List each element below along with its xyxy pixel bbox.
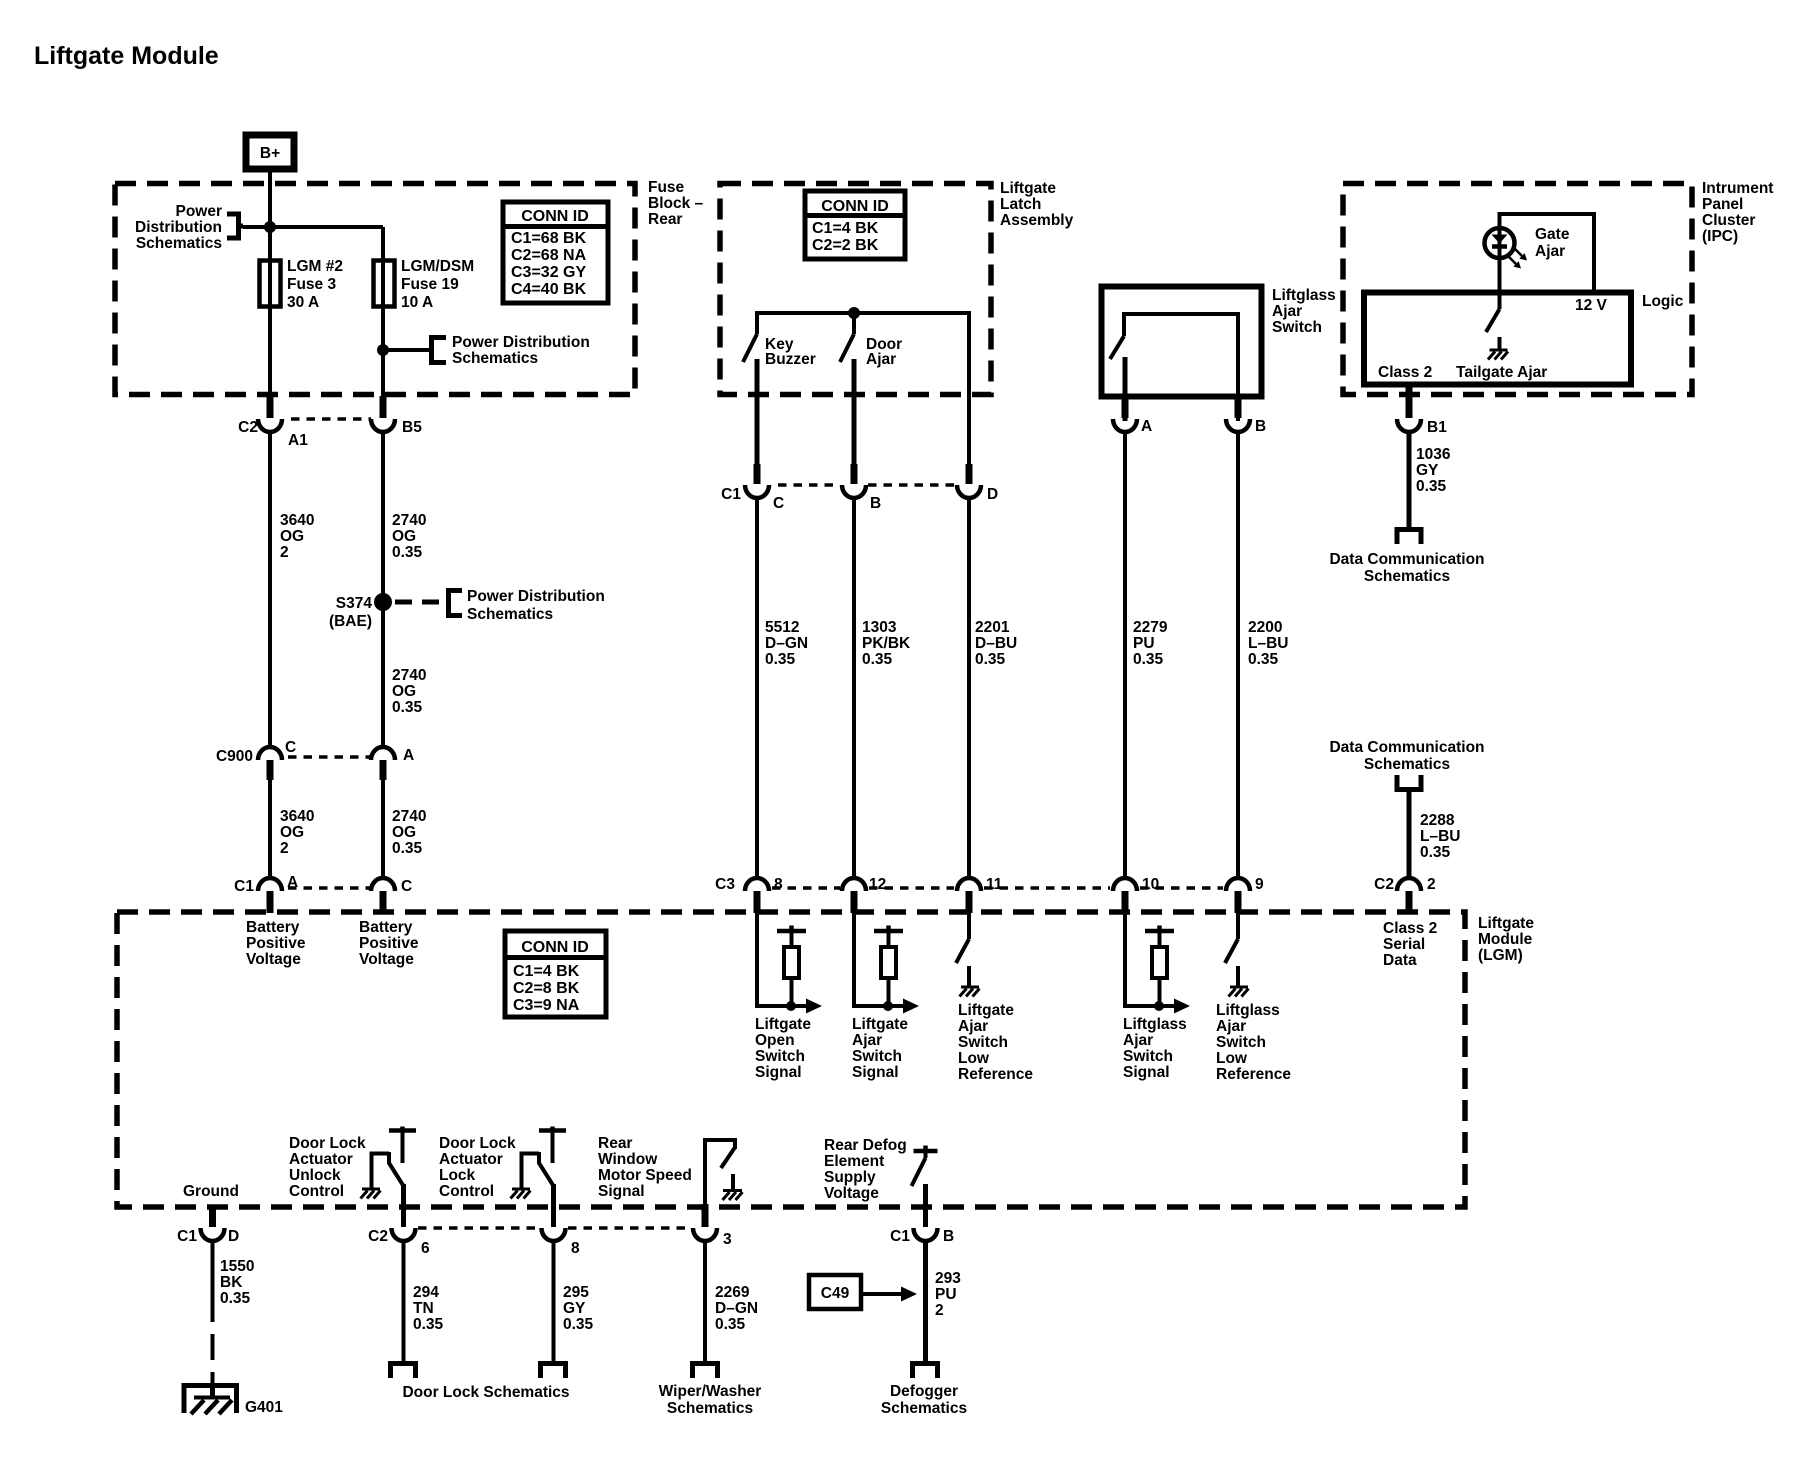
svg-text:(IPC): (IPC) [1702, 228, 1738, 245]
svg-text:Wiper/Washer: Wiper/Washer [659, 1383, 762, 1400]
connector C1 pin C (stub) [754, 464, 761, 484]
rear window motor: lower contact [731, 1174, 735, 1189]
svg-text:D: D [987, 486, 998, 503]
svg-text:(LGM): (LGM) [1478, 947, 1523, 964]
svg-text:C2: C2 [1374, 876, 1394, 893]
connector C2 pin 2 (stub) [1406, 891, 1413, 913]
svg-text:Battery: Battery [359, 919, 413, 936]
svg-text:Gate: Gate [1535, 226, 1570, 243]
svg-text:B+: B+ [260, 145, 280, 162]
conn id table (LGM) [505, 931, 606, 1017]
wire circuit 5512 [755, 497, 759, 880]
conn id table (latch) [805, 191, 905, 259]
connector link C3 row a [772, 886, 840, 890]
fuse block label [648, 179, 704, 228]
connector link C3 row d [1140, 886, 1223, 890]
connector C900 pin A (arc) [371, 747, 395, 760]
svg-text:Liftgate: Liftgate [852, 1016, 908, 1033]
svg-text:Ajar: Ajar [1272, 303, 1302, 320]
svg-text:Distribution: Distribution [135, 219, 222, 236]
ground (door lock lock) [511, 1189, 531, 1199]
svg-text:C2: C2 [238, 419, 258, 436]
svg-text:Reference: Reference [1216, 1066, 1291, 1083]
svg-text:C1=68 BK: C1=68 BK [511, 230, 587, 247]
svg-text:B1: B1 [1427, 419, 1447, 436]
node latch bus / door ajar [848, 307, 860, 319]
switch: rear window motor speed (blade) [721, 1148, 735, 1168]
connector C2 pin 2 (arc) [1397, 878, 1421, 891]
svg-text:2200: 2200 [1248, 619, 1282, 636]
connector C1 pin A (arc) [258, 878, 282, 891]
svg-text:Schematics: Schematics [1364, 568, 1450, 585]
svg-text:Liftglass: Liftglass [1216, 1002, 1280, 1019]
svg-text:Unlock: Unlock [289, 1167, 341, 1184]
svg-text:D–GN: D–GN [765, 635, 808, 652]
connector pin B5 (arc) [371, 419, 395, 432]
arrow liftgate ajar switch signal [903, 999, 919, 1014]
svg-text:GY: GY [563, 1300, 586, 1317]
svg-text:2201: 2201 [975, 619, 1010, 636]
wire liftgate open switch input [757, 912, 812, 1006]
svg-text:Motor Speed: Motor Speed [598, 1167, 692, 1184]
LED light arrows [1508, 248, 1527, 269]
svg-text:Liftgate: Liftgate [755, 1016, 811, 1033]
node liftgate ajar resistor tie [883, 1001, 893, 1011]
label liftglass ajar switch [1272, 287, 1336, 336]
svg-text:C2: C2 [368, 1228, 388, 1245]
connector pin 12 (stub) [851, 891, 858, 913]
svg-text:Signal: Signal [755, 1064, 802, 1081]
connector pin 11 (arc) [957, 878, 981, 891]
wire circuit 2740 upper [381, 431, 385, 749]
switch: liftglass ajar (blade) [1110, 336, 1124, 359]
connector pin C (stub) [380, 891, 387, 913]
svg-text:0.35: 0.35 [1133, 651, 1164, 668]
svg-text:Class 2: Class 2 [1383, 920, 1437, 937]
svg-text:Control: Control [439, 1183, 494, 1200]
connector link bottom row b [568, 1226, 691, 1230]
node: fuse 19 output tap [377, 344, 389, 356]
wire liftglass ajar low ref [1236, 912, 1240, 939]
svg-text:Liftglass: Liftglass [1123, 1016, 1187, 1033]
wire B+ to fuse 1 [268, 172, 272, 400]
svg-text:L–BU: L–BU [1420, 828, 1460, 845]
svg-text:Schematics: Schematics [1364, 756, 1450, 773]
label wire 294 TN 0.35 [413, 1284, 444, 1333]
svg-text:Rear: Rear [648, 211, 682, 228]
connector pin D (stub) [966, 464, 973, 484]
off-page bracket: power distribution schematics (mid) [432, 338, 447, 363]
svg-text:Ground: Ground [183, 1183, 239, 1200]
svg-text:Positive: Positive [359, 935, 419, 952]
connector pin B5 (stub) [380, 396, 387, 418]
connector C1 pin A (stub) [267, 891, 274, 913]
connector link C3 row c [984, 886, 1110, 890]
svg-text:Assembly: Assembly [1000, 212, 1074, 229]
liftglass switch internal wire [1124, 314, 1238, 421]
wire 12V loop [1500, 214, 1595, 292]
svg-text:C1: C1 [177, 1228, 197, 1245]
resistor (liftgate ajar pull-up) [874, 926, 903, 1007]
label class 2 serial data [1383, 920, 1437, 969]
label liftglass ajar switch signal [1123, 1016, 1187, 1081]
svg-text:C3=32 GY: C3=32 GY [511, 264, 586, 281]
svg-text:Panel: Panel [1702, 196, 1743, 213]
connector pin A (stub) [1122, 398, 1129, 418]
label wire 2201 D-BU 0.35 [975, 619, 1017, 668]
battery feed B+ [246, 135, 294, 169]
svg-text:S374: S374 [336, 595, 373, 612]
svg-text:Intrument: Intrument [1702, 180, 1773, 197]
connector link C3 row b [869, 886, 954, 890]
svg-text:Liftgate: Liftgate [958, 1002, 1014, 1019]
svg-text:(BAE): (BAE) [329, 613, 372, 630]
svg-text:0.35: 0.35 [1248, 651, 1279, 668]
svg-text:PU: PU [1133, 635, 1155, 652]
door lock actuator lock control: T terminal [539, 1127, 566, 1164]
label door lock actuator lock control [439, 1135, 516, 1200]
svg-text:Latch: Latch [1000, 196, 1041, 213]
label wire 1303 PK/BK 0.35 [862, 619, 911, 668]
svg-text:Power Distribution: Power Distribution [452, 334, 590, 351]
door lock unlock: grounded contact wire [372, 1154, 390, 1189]
wire to power distribution bracket (mid) [383, 348, 431, 352]
svg-text:C1: C1 [890, 1228, 910, 1245]
connector pin A (arc) [1113, 419, 1137, 432]
connector pin 12 (arc) [842, 878, 866, 891]
svg-text:Voltage: Voltage [246, 951, 301, 968]
node liftgate open resistor tie [786, 1001, 796, 1011]
dashed link S374 to bracket [395, 600, 446, 605]
connector link C900 row [288, 755, 370, 759]
svg-text:2279: 2279 [1133, 619, 1168, 636]
label door lock actuator unlock control [289, 1135, 366, 1200]
svg-text:C49: C49 [821, 1285, 850, 1302]
wire rear window output (stub) [702, 1204, 709, 1227]
connector pin 11 (stub) [966, 891, 973, 913]
wire circuit 294 [402, 1240, 406, 1362]
connector C2 pin A1 (stub) [267, 396, 274, 418]
svg-text:Lock: Lock [439, 1167, 476, 1184]
svg-text:8: 8 [774, 876, 783, 893]
wire circuit 1550 [211, 1240, 215, 1322]
label wiper/washer schematics [659, 1383, 762, 1417]
svg-text:Power Distribution: Power Distribution [467, 588, 605, 605]
svg-text:Data: Data [1383, 952, 1417, 969]
wire liftgate ajar low ref contact [967, 966, 971, 986]
svg-text:D: D [228, 1228, 239, 1245]
svg-text:2: 2 [280, 840, 289, 857]
label wire 3640 OG 2 (lower) [280, 808, 314, 857]
svg-text:Liftgate: Liftgate [1000, 180, 1056, 197]
svg-text:Serial: Serial [1383, 936, 1425, 953]
svg-text:Switch: Switch [958, 1034, 1008, 1051]
connector link bottom row a [418, 1226, 539, 1230]
label gate ajar [1535, 226, 1570, 260]
svg-text:Voltage: Voltage [824, 1185, 879, 1202]
off-page bracket: defogger schematics [913, 1364, 938, 1379]
label liftgate module (LGM) [1478, 915, 1534, 964]
svg-text:CONN ID: CONN ID [821, 198, 889, 215]
svg-text:D–BU: D–BU [975, 635, 1017, 652]
connector C3 pin 8 (stub) [754, 891, 761, 913]
svg-text:12 V: 12 V [1575, 297, 1608, 314]
svg-text:294: 294 [413, 1284, 439, 1301]
switch: door lock lock (blade) [539, 1152, 554, 1186]
connector pin 3 (arc) [693, 1228, 717, 1241]
svg-text:2: 2 [280, 544, 289, 561]
wire class 2 out of logic [1406, 384, 1413, 418]
wire latch common bus [757, 313, 969, 466]
connector C900 pin C (stub) [267, 760, 274, 780]
connector C1 pin D (stub) [209, 1207, 216, 1227]
off-page bracket: door lock schematics (left) [391, 1364, 416, 1379]
wire circuit 2201 [967, 497, 971, 880]
wire LED to switch [1498, 258, 1502, 309]
svg-text:Block –: Block – [648, 195, 704, 212]
label liftgate open switch signal [755, 1016, 811, 1081]
fuse block rear box [115, 184, 635, 395]
connector pin B (arc) [842, 485, 866, 498]
svg-text:OG: OG [392, 683, 416, 700]
svg-text:Fuse: Fuse [648, 179, 685, 196]
svg-text:0.35: 0.35 [715, 1316, 746, 1333]
svg-text:C: C [285, 739, 296, 756]
switch: tailgate ajar (blade) [1486, 309, 1500, 332]
svg-text:B5: B5 [402, 419, 422, 436]
label wire 1036 GY 0.35 [1416, 446, 1451, 495]
svg-text:1036: 1036 [1416, 446, 1451, 463]
connector pin 8 (arc, bottom) [542, 1228, 566, 1241]
wire key buzzer to connector [755, 359, 760, 466]
svg-text:Ajar: Ajar [1535, 243, 1565, 260]
label wire 2200 L-BU 0.35 [1248, 619, 1288, 668]
svg-text:LGM #2: LGM #2 [287, 258, 343, 275]
connector C900 pin A (stub) [380, 760, 387, 780]
svg-text:PU: PU [935, 1286, 957, 1303]
wire liftgate ajar switch input [854, 912, 909, 1006]
switch: key buzzer (blade) [743, 334, 757, 362]
svg-text:Door Lock: Door Lock [289, 1135, 366, 1152]
svg-text:0.35: 0.35 [392, 699, 423, 716]
svg-text:12: 12 [869, 876, 886, 893]
off-page bracket: door lock schematics (right) [541, 1364, 566, 1379]
svg-text:293: 293 [935, 1270, 961, 1287]
label wire 2740 OG 0.35 (upper) [392, 512, 426, 561]
svg-text:A: A [403, 747, 414, 764]
svg-text:Defogger: Defogger [890, 1383, 958, 1400]
svg-text:Element: Element [824, 1153, 884, 1170]
svg-text:TN: TN [413, 1300, 434, 1317]
svg-text:2740: 2740 [392, 667, 426, 684]
svg-text:Tailgate Ajar: Tailgate Ajar [1456, 364, 1547, 381]
connector pin B (stub) [1235, 398, 1242, 418]
label wire 3640 OG 2 (upper) [280, 512, 314, 561]
wire circuit 1550 (dashed tail) [211, 1334, 215, 1384]
wire door ajar to connector [852, 359, 857, 466]
svg-text:Liftgate: Liftgate [1478, 915, 1534, 932]
wire liftglass ajar low ref contact [1236, 966, 1240, 986]
svg-text:295: 295 [563, 1284, 589, 1301]
svg-text:Fuse 19: Fuse 19 [401, 276, 459, 293]
off-page bracket: data communication (up) [1397, 775, 1421, 790]
connector pin C (arc) [371, 878, 395, 891]
svg-text:Module: Module [1478, 931, 1533, 948]
svg-text:OG: OG [280, 528, 304, 545]
connector link C2 row [291, 417, 371, 421]
off-page bracket: data communication (down) [1397, 530, 1421, 545]
svg-text:8: 8 [571, 1240, 580, 1257]
ground (door lock unlock) [361, 1189, 381, 1199]
svg-text:Battery: Battery [246, 919, 300, 936]
label wire 2288 L-BU 0.35 [1420, 812, 1460, 861]
svg-text:Voltage: Voltage [359, 951, 414, 968]
svg-text:2: 2 [935, 1302, 944, 1319]
connector pin D (arc) [957, 485, 981, 498]
svg-text:Schematics: Schematics [467, 606, 553, 623]
connector pin B1 (arc) [1397, 419, 1421, 432]
connector C2 pin 6 (arc) [392, 1228, 416, 1241]
svg-text:2269: 2269 [715, 1284, 750, 1301]
label instrument panel cluster [1702, 180, 1773, 245]
svg-text:Rear: Rear [598, 1135, 632, 1152]
ground (rear window motor) [723, 1191, 743, 1201]
fuse F19: LGM/DSM Fuse 19 10 A [374, 261, 395, 307]
svg-text:C2=2 BK: C2=2 BK [812, 237, 879, 254]
svg-text:10 A: 10 A [401, 294, 433, 311]
conn id table (fuse block) [503, 202, 608, 303]
svg-text:1303: 1303 [862, 619, 897, 636]
svg-text:Switch: Switch [1216, 1034, 1266, 1051]
svg-text:Supply: Supply [824, 1169, 876, 1186]
connector C1 pin D (arc) [201, 1228, 225, 1241]
wire circuit 295 [552, 1240, 556, 1362]
label data communication schematics (lower) [1329, 739, 1484, 773]
svg-text:3640: 3640 [280, 808, 314, 825]
svg-text:C1: C1 [234, 878, 254, 895]
off-page bracket: wiper/washer schematics [693, 1364, 718, 1379]
instrument panel cluster box [1343, 184, 1692, 395]
connector C1 pin B (arc) [914, 1228, 938, 1241]
svg-text:C2=68 NA: C2=68 NA [511, 247, 587, 264]
svg-text:6: 6 [421, 1240, 430, 1257]
svg-text:10: 10 [1142, 876, 1159, 893]
svg-text:Signal: Signal [598, 1183, 645, 1200]
svg-text:B: B [870, 495, 881, 512]
svg-text:OG: OG [392, 528, 416, 545]
wire liftglass ajar switch input [1125, 912, 1180, 1006]
wire liftgate ajar low ref [967, 912, 971, 939]
door lock lock: grounded contact wire [522, 1154, 540, 1189]
svg-text:2288: 2288 [1420, 812, 1455, 829]
rear defog: T terminal [914, 1146, 938, 1159]
label wire 2740 OG 0.35 (lower) [392, 808, 426, 857]
connector C1 pin C (arc) [745, 485, 769, 498]
svg-text:B: B [1255, 418, 1266, 435]
wire circuit 2279 [1123, 431, 1127, 880]
svg-text:Positive: Positive [246, 935, 306, 952]
svg-text:Low: Low [958, 1050, 990, 1067]
svg-text:Switch: Switch [852, 1048, 902, 1065]
ground (tailgate ajar) [1488, 350, 1508, 360]
svg-text:Signal: Signal [1123, 1064, 1170, 1081]
switch: door lock unlock (blade) [389, 1152, 404, 1186]
label liftgate ajar switch low reference [958, 1002, 1033, 1083]
wire circuit 3640 upper [268, 431, 272, 749]
label rear defog element supply voltage [824, 1137, 907, 1202]
label data communication schematics (upper) [1329, 551, 1484, 585]
label power distribution schematics (S374) [467, 588, 605, 623]
connector pin 9 (arc) [1226, 878, 1250, 891]
svg-text:0.35: 0.35 [392, 840, 423, 857]
svg-text:B: B [943, 1228, 954, 1245]
svg-text:Ajar: Ajar [958, 1018, 988, 1035]
label liftglass ajar switch low reference [1216, 1002, 1291, 1083]
label power distribution schematics (mid) [452, 334, 590, 367]
switch: door ajar (blade) [840, 334, 854, 362]
svg-text:C1: C1 [721, 486, 741, 503]
svg-text:Data Communication: Data Communication [1329, 551, 1484, 568]
svg-text:GY: GY [1416, 462, 1439, 479]
wire tailgate ajar lower contact [1498, 337, 1502, 349]
svg-text:PK/BK: PK/BK [862, 635, 911, 652]
wire door ajar drop [852, 313, 856, 334]
svg-text:LGM/DSM: LGM/DSM [401, 258, 474, 275]
svg-text:D–GN: D–GN [715, 1300, 758, 1317]
fuse F3: LGM #2 Fuse 3 30 A [260, 261, 281, 307]
connector C49 reference box [809, 1275, 861, 1309]
svg-text:A1: A1 [288, 432, 308, 449]
wire circuit 3640 lower [268, 778, 272, 880]
svg-text:0.35: 0.35 [765, 651, 796, 668]
wire circuit 293 [923, 1240, 928, 1362]
svg-text:C900: C900 [216, 748, 253, 765]
svg-text:CONN ID: CONN ID [521, 208, 589, 225]
ground G401 [182, 1383, 240, 1414]
svg-text:BK: BK [220, 1274, 243, 1291]
svg-text:Schematics: Schematics [667, 1400, 753, 1417]
svg-text:0.35: 0.35 [1420, 844, 1451, 861]
label wire 1550 BK 0.35 [220, 1258, 254, 1307]
rear window motor: contact wire [705, 1140, 735, 1207]
svg-text:Actuator: Actuator [289, 1151, 353, 1168]
svg-text:0.35: 0.35 [413, 1316, 444, 1333]
svg-text:C4=40 BK: C4=40 BK [511, 281, 587, 298]
svg-text:C: C [401, 878, 412, 895]
arrow liftgate open switch signal [806, 999, 822, 1014]
svg-text:Low: Low [1216, 1050, 1248, 1067]
connector C3 pin 8 (arc) [745, 878, 769, 891]
wire circuit 2200 [1236, 431, 1240, 880]
svg-text:1550: 1550 [220, 1258, 254, 1275]
svg-text:Class 2: Class 2 [1378, 364, 1432, 381]
svg-text:OG: OG [280, 824, 304, 841]
connector link latch row 2 [868, 483, 954, 487]
svg-text:Reference: Reference [958, 1066, 1033, 1083]
label wire 293 PU 2 [935, 1270, 961, 1319]
wire liftglass A drop [1123, 357, 1128, 421]
switch: liftglass ajar low reference (blade) [1225, 939, 1238, 963]
off-page bracket: power distribution schematics (left) [227, 214, 243, 238]
svg-text:0.35: 0.35 [392, 544, 423, 561]
svg-text:3640: 3640 [280, 512, 314, 529]
label wire 5512 D-GN 0.35 [765, 619, 808, 668]
svg-text:Power: Power [175, 203, 222, 220]
wire circuit 1303 [852, 497, 856, 880]
svg-text:Door Lock: Door Lock [439, 1135, 516, 1152]
wire: feed down to fuse 19 [381, 227, 385, 400]
svg-text:Schematics: Schematics [136, 235, 222, 252]
